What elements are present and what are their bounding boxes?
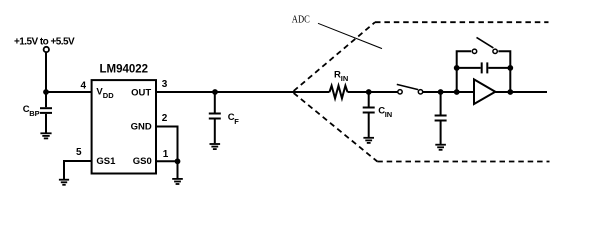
capacitor sample (unlabeled)	[435, 116, 447, 121]
svg-text:LM94022: LM94022	[100, 63, 149, 75]
node feedback cap left dot	[454, 65, 460, 71]
svg-text:3: 3	[162, 79, 168, 90]
svg-text:+1.5V to +5.5V: +1.5V to +5.5V	[14, 37, 75, 48]
svg-text:F: F	[234, 117, 239, 126]
svg-text:IN: IN	[341, 74, 349, 83]
switch S1 blade	[397, 84, 418, 89]
wire feedback left vertical	[457, 51, 472, 92]
switch S2 contact left	[472, 49, 476, 53]
ADC leader line	[318, 23, 382, 48]
node feedback cap right dot	[507, 65, 513, 71]
wire OUT pin 3 to ADC point	[157, 91, 293, 93]
wire ADC point to R_IN	[293, 91, 330, 93]
wire to pin 4	[46, 91, 91, 93]
svg-text:2: 2	[162, 113, 168, 124]
ground (GS1)	[59, 180, 69, 185]
wire sample cap down	[440, 92, 442, 115]
wire switch to op-amp	[423, 91, 474, 93]
wire C_F down	[214, 92, 216, 113]
wire sample cap to ground	[440, 122, 442, 145]
wire C_IN to ground	[368, 114, 370, 138]
capacitor C_F	[209, 114, 221, 119]
label R_IN	[334, 70, 348, 84]
switch S1 contact left	[398, 90, 402, 94]
ground (GND/GS0)	[172, 179, 183, 184]
ADC boundary dashed bottom horizontal	[377, 161, 549, 163]
label C_BP	[23, 104, 40, 118]
resistor R_IN	[330, 86, 348, 99]
capacitor C_BP	[40, 108, 52, 113]
node C_IN junction dot	[366, 89, 372, 95]
label C_F	[228, 112, 239, 126]
wire C_F to ground	[214, 120, 216, 144]
wire feedback cap right	[488, 67, 510, 69]
ADC boundary dashed bottom diagonal	[294, 93, 378, 162]
svg-text:1: 1	[163, 149, 169, 160]
node GND junction dot	[175, 158, 181, 164]
wire pin 5 GS1	[64, 161, 91, 179]
svg-text:GS1: GS1	[96, 156, 116, 167]
svg-text:GS0: GS0	[133, 156, 152, 167]
wire switch S2 right to feedback right vertical	[498, 51, 510, 92]
svg-text:4: 4	[81, 80, 87, 91]
wire C_BP to ground	[45, 114, 47, 133]
node feedback left junction dot	[454, 89, 460, 95]
svg-text:ADC: ADC	[292, 15, 310, 26]
ground (sample cap)	[435, 145, 446, 150]
ground (below C_BP)	[40, 133, 51, 138]
wire op-amp output	[495, 91, 547, 93]
wire C_IN down	[368, 92, 370, 107]
ground (C_F)	[210, 144, 221, 149]
label C_IN	[378, 106, 392, 120]
svg-text:IN: IN	[385, 110, 393, 119]
svg-text:BP: BP	[29, 109, 39, 118]
switch S2 blade	[477, 37, 494, 48]
switch S1 contact right	[418, 90, 422, 94]
ground (C_IN)	[363, 138, 374, 143]
svg-text:GND: GND	[131, 122, 152, 133]
svg-text:DD: DD	[103, 91, 114, 100]
op-amp U2	[474, 79, 495, 104]
wire pin 1 GS0	[156, 160, 178, 162]
wire VDD node to C_BP	[45, 92, 47, 107]
wire supply down	[45, 53, 47, 92]
pin label VDD	[96, 86, 114, 99]
op IC U1 LM94022 box	[92, 80, 156, 173]
capacitor C_IN	[363, 108, 375, 113]
supply terminal	[44, 47, 49, 52]
svg-text:5: 5	[76, 147, 82, 158]
node VDD junction dot	[43, 89, 49, 95]
node C_F junction dot	[212, 89, 218, 95]
ADC boundary dashed top horizontal	[375, 21, 549, 23]
svg-text:OUT: OUT	[131, 88, 151, 99]
node sample cap junction dot	[438, 89, 444, 95]
capacitor feedback	[482, 62, 488, 73]
wire feedback cap left	[457, 67, 481, 69]
wire pin 2 GND	[156, 127, 178, 179]
wire R_IN to switch	[348, 91, 398, 93]
ADC boundary dashed top diagonal	[294, 22, 375, 91]
node output junction dot	[507, 89, 513, 95]
switch S2 contact right	[493, 49, 497, 53]
